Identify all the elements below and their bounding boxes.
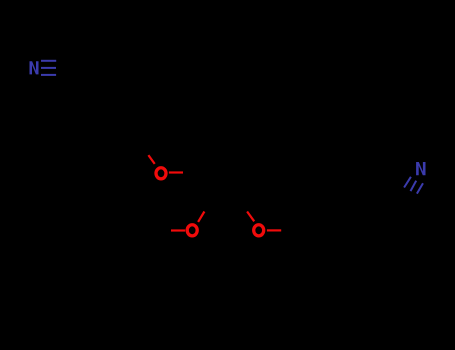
bond O1-ring (red half) xyxy=(169,171,183,173)
bond O2-methyl (red half) xyxy=(171,229,185,231)
wire: chain bonds left nitrile to O1 (black, invisible) xyxy=(56,68,142,146)
benzene ring (black on black, invisible) xyxy=(190,140,266,204)
bond O3-chain (red half) xyxy=(267,229,281,231)
ether O1 (left middle) xyxy=(156,168,166,179)
nitrile N1 label (left) xyxy=(30,61,39,74)
ether O2 (bottom left) xyxy=(187,225,197,236)
bond O2-ring diagonal (red half) xyxy=(198,212,204,222)
bond C-O1 upper half (red) xyxy=(148,155,154,164)
nitrile N2 label (right) xyxy=(416,162,425,175)
triple bond C#N (right nitrile) xyxy=(404,177,423,194)
triple bond C#N (left nitrile) xyxy=(41,61,56,75)
bond O3-ring diagonal (red half) xyxy=(247,212,254,222)
ether O3 (bottom right) xyxy=(254,225,264,236)
